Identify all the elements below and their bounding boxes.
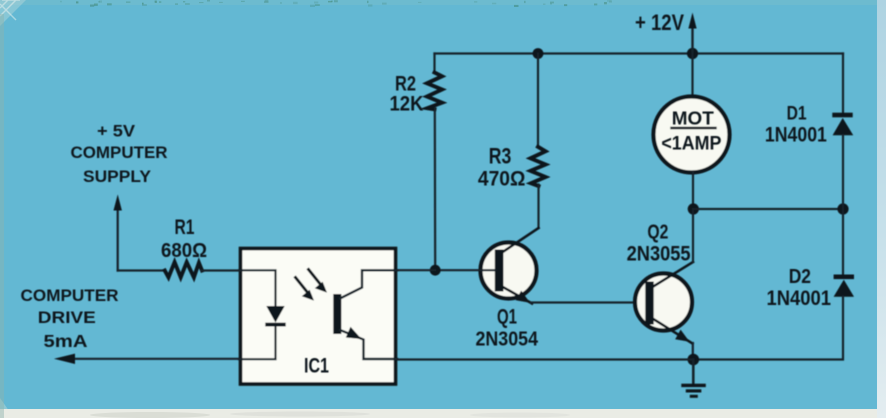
ground symbol bar 2 (686, 389, 702, 392)
wire node to D1/D2 junction (693, 208, 843, 210)
wire motor bottom (692, 173, 694, 210)
svg-text:Q1: Q1 (497, 306, 517, 329)
transistor Q1 base bar (495, 250, 504, 292)
motor M1 circle (654, 97, 730, 173)
junction node motor/Q2 collector (688, 203, 699, 214)
+5V supply arrow (117, 209, 119, 271)
motor label underline (672, 127, 716, 129)
IC1 light arrow 1 (296, 278, 315, 301)
svg-text:D1: D1 (787, 102, 807, 124)
transistor Q2 circle (635, 274, 692, 331)
wire R1 to IC1 (202, 269, 240, 271)
wire motor top (691, 54, 693, 98)
IC1 light arrow 2 (309, 270, 328, 293)
IC1 phototransistor emitter arrowhead (346, 327, 362, 339)
transistor Q1 collector lead (502, 228, 539, 253)
wire top +12V rail (435, 52, 844, 54)
junction node R3 top (533, 48, 544, 59)
ground symbol bar 3 (690, 395, 698, 398)
diode D1 cathode bar (832, 113, 852, 118)
wire Q1 base (435, 269, 495, 271)
junction node ground (688, 354, 700, 366)
svg-text:DRIVE: DRIVE (38, 308, 96, 327)
diode D2 cathode bar (834, 275, 854, 280)
wire Q2 collector up to node (692, 209, 694, 262)
wire R2 top stub (433, 54, 435, 73)
IC1 LED cathode bar (265, 323, 285, 327)
wire right rail top (to D1 cathode) (842, 54, 844, 113)
wire ground rail IC1 to ground node (397, 358, 693, 360)
svg-text:2N3054: 2N3054 (476, 327, 539, 350)
IC1 phototransistor collector lead (340, 270, 397, 298)
transistor Q1 emitter arrowhead (516, 291, 530, 303)
svg-text:1N4001: 1N4001 (765, 123, 827, 147)
wire R3 bottom to Q1 collector (537, 185, 539, 229)
svg-text:+ 12V: + 12V (635, 10, 684, 35)
junction node D1/D2 (837, 203, 848, 214)
diode D1 triangle (833, 118, 854, 135)
IC1 LED anode pin wire (239, 270, 276, 306)
wire D2 anode down and left to ground node (693, 297, 843, 360)
svg-text:5mA: 5mA (44, 331, 88, 351)
IC1 LED triangle (266, 306, 284, 323)
svg-text:2N3055: 2N3055 (627, 243, 691, 266)
svg-text:COMPUTER: COMPUTER (21, 286, 119, 305)
svg-text:<1AMP: <1AMP (661, 134, 721, 155)
svg-text:SUPPLY: SUPPLY (83, 167, 152, 186)
wire IC1 output to base node (397, 269, 435, 271)
computer drive arrowhead (54, 354, 75, 364)
svg-text:680Ω: 680Ω (161, 239, 207, 262)
+12V arrow (691, 28, 693, 52)
resistor R1 (165, 262, 202, 277)
svg-text:1N4001: 1N4001 (767, 287, 832, 310)
svg-text:R3: R3 (489, 144, 512, 169)
wire +5V corner to R1 (118, 269, 165, 271)
diode D2 triangle (834, 280, 854, 297)
svg-text:+ 5V: + 5V (97, 123, 135, 141)
svg-text:Q2: Q2 (647, 221, 668, 244)
svg-text:12K: 12K (390, 93, 424, 116)
transistor Q2 emitter lead (653, 319, 693, 344)
IC1 phototransistor bar (333, 294, 341, 334)
svg-text:470Ω: 470Ω (478, 168, 526, 191)
ground stub (692, 360, 695, 385)
IC1 phototransistor emitter lead (340, 330, 397, 359)
+5V arrowhead (114, 195, 122, 211)
wire R3 top stub (537, 54, 539, 147)
wire R2 bottom to base node (434, 109, 437, 270)
transistor Q2 emitter arrowhead (675, 330, 689, 342)
wire ground rail left of IC1 (computer drive return) (73, 358, 239, 360)
+12V arrowhead (688, 13, 696, 29)
junction node +12V / motor (687, 48, 698, 59)
transistor Q2 base bar (645, 282, 653, 325)
IC1 LED cathode pin wire (239, 327, 276, 360)
svg-text:COMPUTER: COMPUTER (71, 143, 168, 162)
svg-text:R1: R1 (175, 216, 195, 239)
transistor Q1 emitter lead (502, 287, 532, 304)
junction node R2/IC1/Q1 base (430, 265, 441, 276)
resistor R2 (427, 73, 442, 110)
transistor Q1 circle (481, 243, 537, 299)
ground symbol bar 1 (681, 384, 706, 387)
wire D1 anode to junction (842, 135, 844, 209)
wire Q2 emitter to ground node (692, 343, 694, 360)
wire Q1 emitter to Q2 base (531, 301, 646, 303)
svg-text:IC1: IC1 (304, 353, 329, 377)
svg-text:D2: D2 (789, 265, 811, 288)
resistor R3 (531, 147, 546, 186)
svg-text:MOT: MOT (672, 107, 715, 128)
wire junction to D2 cathode (842, 209, 844, 274)
optocoupler IC1 box (241, 249, 396, 385)
transistor Q2 collector lead (653, 262, 694, 287)
